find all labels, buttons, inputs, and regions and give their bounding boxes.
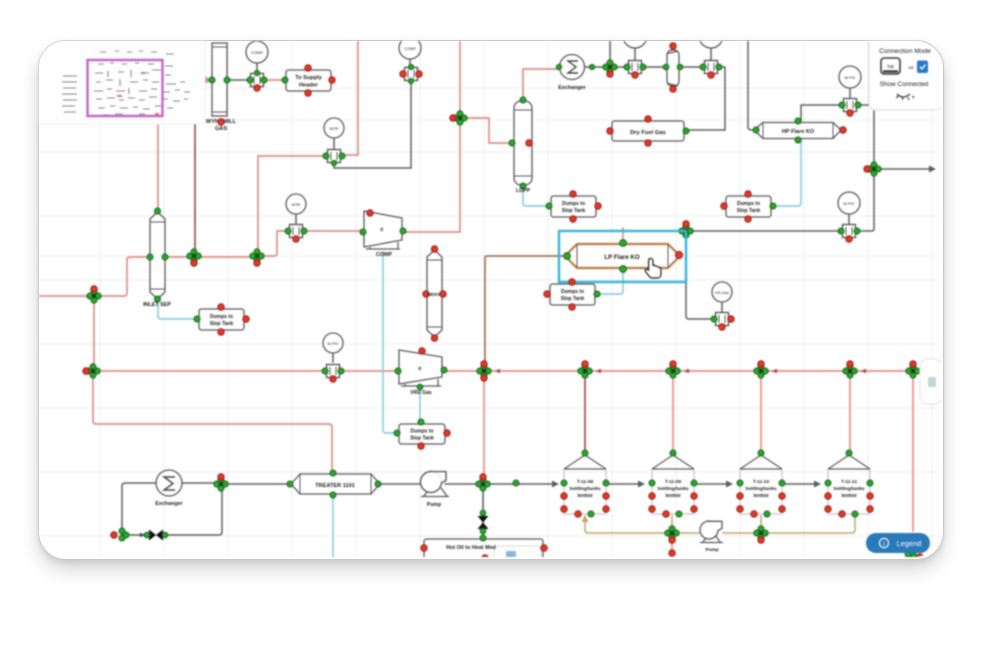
column INLET SEP [143,208,171,308]
tab key icon [881,58,900,74]
flow arrows on header [495,369,866,374]
svg-text:COMP: COMP [376,252,393,258]
junction node x93 y371 [83,364,100,378]
junction node x673 y371 [666,361,680,378]
wire top drop to junction610 [609,41,611,62]
slop box 3 (lp flare) [544,279,600,310]
wire HP flare bottom slop teal [777,139,801,206]
svg-text:Dry Fuel Gas: Dry Fuel Gas [630,130,666,136]
wire recycle tan from tank4 [585,516,855,533]
compressor COMP [360,210,406,258]
mini vessel MV1 [663,43,683,92]
slop box 4 (hp flare) [721,191,776,222]
junction node x672 y533 [665,526,679,556]
wire junction672 red stub down [671,538,673,551]
svg-text:Settling/tanks: Settling/tanks [657,486,689,492]
svg-text:Exchanger: Exchanger [558,85,586,91]
exchanger E2 [155,470,183,507]
svg-text:Connection Mode: Connection Mode [879,48,931,55]
cursor pointer [645,259,661,279]
wire exchanger E2 loop [122,483,222,535]
minimap sketch marks [62,51,190,116]
instrument circle C3 [324,118,344,150]
instrument circle C4 [286,194,306,225]
valve V10 [322,365,344,383]
svg-text:Dumps to: Dumps to [561,289,584,295]
svg-text:LGPP: LGPP [516,188,531,194]
junction node x585 y371 [578,361,592,378]
svg-text:on: on [908,66,914,71]
wire inlet-sep outlet y257 [166,256,251,258]
svg-text:Pump: Pump [705,547,718,553]
wire drop to tank2 [672,376,674,450]
wire junction94 drop to junction93 [93,301,95,366]
svg-text:Slop Tank: Slop Tank [562,208,586,214]
slop box 1 (inlet sep) [194,304,249,335]
svg-text:Header: Header [299,83,319,89]
wire LGPP bottom slop teal [523,188,547,206]
junction node x761 y533 [754,526,768,543]
wire tank3-tank4 arrow [785,483,818,485]
vessel WYNDMILL GAS [206,43,237,132]
wire tank1-tank2 arrow [609,483,642,485]
valve V2 [400,64,422,83]
svg-text:M PIV: M PIV [845,75,856,80]
connection mode panel [869,40,943,110]
svg-text:MTR: MTR [292,202,301,207]
node cluster at bottom edge below legend [905,551,923,560]
instrument circle C9 [712,282,732,313]
tank T-11-08 [561,450,609,517]
junction node x483 y484 [476,474,490,491]
minimap viewport rect [88,60,163,116]
wire maroon riser x195 [194,124,196,251]
junction node x850 y371 [843,361,857,378]
instrument circle C8 [838,192,860,225]
wire valve V6 to dry fuel gas box [686,67,725,130]
junction node x94 y296 [87,286,101,303]
wire junction221 to treater [227,483,289,485]
wire exchanger E1 across valves y67 [585,66,704,68]
wire VRU bottom slop teal [419,387,421,420]
wire vessel1 to valve V1 [227,79,251,81]
column DEHY [423,246,446,341]
svg-text:E: E [418,366,421,371]
instrument circle C10 [323,333,343,362]
wire valve V3 left to junction x258 [258,156,327,250]
legend button [866,533,930,553]
svg-text:T-11-09: T-11-09 [665,479,682,485]
wire junction460 to LGPP column inlet [465,118,511,143]
svg-text:Tab: Tab [887,64,895,69]
junction node x610 y67 [603,60,617,77]
wire junction93 loop to treater top [93,376,332,472]
valve V8 [838,225,860,243]
wire tank2-tank3 arrow [697,483,730,485]
box To Supply Header [282,65,335,96]
canvas card [38,40,944,560]
svg-text:T-11-08: T-11-08 [577,479,594,485]
wire pump P1 to junction483 [445,483,477,485]
wire inlet feed arrow [196,79,208,81]
svg-text:T-11-11: T-11-11 [841,479,857,485]
svg-text:E: E [380,227,383,232]
svg-text:Slop Tank: Slop Tank [210,321,234,327]
minimap overlay [38,40,205,124]
wire gray valve V3 bottom to valve V2 bottom [334,82,411,168]
wire LP flare top stub [622,228,624,243]
toggle on [908,61,928,74]
junction node x686 y231 [679,221,693,238]
svg-text:Slop Tank: Slop Tank [410,436,434,442]
slop box 2 (lgpp) [546,191,601,222]
wire tank3 stub [760,516,762,528]
wire LP flare inlet from west riser [485,256,566,366]
svg-text:Dumps to: Dumps to [562,201,585,207]
junction node x194 y256 [187,249,201,266]
bowtie valve B1 [144,530,168,541]
valve V1 [247,70,267,91]
wire valve V8 left to junction686 [691,230,842,232]
svg-text:COMP: COMP [251,50,263,55]
instrument circle C2 [399,37,421,68]
svg-text:GAS: GAS [215,126,227,132]
wire junction483 to tank1 arrow [489,483,556,485]
wire junction874 down to valve V8 [858,174,874,231]
svg-text:Slop Tank: Slop Tank [737,208,761,214]
wire drop to tank1 maroon [584,376,586,450]
valve V5 [624,61,646,79]
svg-text:HS Gas: HS Gas [715,290,729,295]
valve V7 [839,99,861,117]
junction node x257 y256 [250,249,264,266]
tank T-11-10 [737,450,785,517]
junction node x874 y169 [864,162,881,176]
svg-text:COMP: COMP [404,46,416,51]
svg-text:500bbl: 500bbl [665,493,680,499]
wire LP flare bottom slop teal [600,269,623,294]
wire treater bottom teal [332,495,334,559]
junction node x460 y118 [450,111,467,125]
svg-text:Exchanger: Exchanger [155,501,183,507]
junction node x484 y371 [477,361,491,381]
bowtie valve B2 vertical [478,510,489,534]
svg-text:Legend: Legend [897,539,922,548]
wire drop to tank3 [760,376,762,450]
slop box 5 (vru) [394,419,450,449]
right edge handle [920,359,942,404]
vessel HP Flare KO [753,118,846,143]
pump P2 [700,521,723,553]
wire main header y371 [99,370,922,372]
pump P1 [421,472,450,509]
wire LGPP top to exchanger E1 [523,69,559,100]
junction node x221 y484 [214,474,228,491]
compressor VRU Gas [395,348,447,396]
wire red riser x460 to COMP outlet [404,41,460,232]
svg-text:Hot Oil to Heat Med: Hot Oil to Heat Med [446,545,496,551]
wire inlet-sep bottom slop teal [158,300,195,319]
tank T-11-09 [649,450,697,517]
wire junction484 drop to junction483 [483,376,485,478]
svg-text:M PIV: M PIV [844,201,855,206]
svg-text:Settling/tanks: Settling/tanks [833,486,865,492]
svg-text:Settling/tanks: Settling/tanks [569,486,601,492]
wire valve V1 to supply header box [264,79,284,81]
svg-text:Slop Tank: Slop Tank [561,296,585,302]
svg-text:MTR: MTR [330,126,339,131]
svg-text:VRU Gas: VRU Gas [410,390,432,396]
svg-text:Settling/tanks: Settling/tanks [745,486,777,492]
tank T-11-11 [825,450,873,517]
svg-text:Pump: Pump [427,502,441,508]
wire drop to tank4 [849,376,851,450]
svg-text:DEHY: DEHY [428,292,441,297]
valve V4 [285,225,307,243]
wire valve V4 to COMP inlet [304,230,362,232]
wire west feed y296 to inlet-sep [40,257,148,296]
instrument circle C1 [246,41,268,74]
instrument circle C6 clipped [699,24,723,61]
svg-text:M PIV: M PIV [328,341,339,346]
svg-text:TREATER 1101: TREATER 1101 [315,483,355,489]
wire junction257 to valve V4 [262,231,288,256]
junction node x913 y371 [906,361,920,378]
instrument circle C5 clipped [623,24,647,61]
svg-text:INLET SEP: INLET SEP [143,302,171,308]
svg-text:LP Flare KO: LP Flare KO [604,254,639,261]
valve V9 [711,313,734,331]
junction node x761 y371 [754,361,768,378]
svg-text:Dumps to: Dumps to [210,314,233,320]
node green x516 [513,480,519,486]
wire treater to pump P1 [379,483,421,485]
svg-text:HP Flare KO: HP Flare KO [782,129,815,135]
svg-text:To Supply: To Supply [295,75,323,81]
exchanger E1 [556,55,594,92]
svg-text:Dumps to: Dumps to [410,429,433,435]
wire valve V7 right to junction874 [857,105,874,165]
box Dry Fuel Gas [607,116,689,146]
wire drop x913 to legend [912,376,914,531]
eye icon [897,94,915,100]
wire vertical riser x358 to valve V3 [343,41,358,155]
svg-text:Dumps to: Dumps to [737,201,760,207]
wire tank2 stub [671,516,673,528]
column LGPP [509,97,532,194]
svg-text:500bbl: 500bbl [841,493,856,499]
wire top drop x748 to HP flare inlet [748,41,754,130]
instrument circle C7 [839,66,861,99]
valve V3 [323,150,345,166]
wire junction874 arrow east [880,168,930,170]
wire junction483 down to hot-oil box [482,489,484,538]
vessel LP Flare KO selected [564,240,683,273]
corner node x122 y535 [111,528,129,541]
svg-text:Show Connected: Show Connected [880,81,929,88]
svg-text:500bbl: 500bbl [577,493,592,499]
wire inlet-sep top riser [157,124,159,210]
wire valve V7 to HP flare top [801,105,843,121]
wire COMP bottom slop teal [383,252,395,433]
vessel TREATER 1101 [287,470,381,498]
box Hot Oil to Heat Med [421,535,547,561]
svg-text:T-11-10: T-11-10 [753,479,770,485]
valve V6 [700,61,722,79]
selection box around LP Flare KO [559,231,686,282]
svg-text:500bbl: 500bbl [753,493,768,499]
svg-text:i: i [883,541,884,548]
wire junction686 down to valve V9 [686,236,711,319]
